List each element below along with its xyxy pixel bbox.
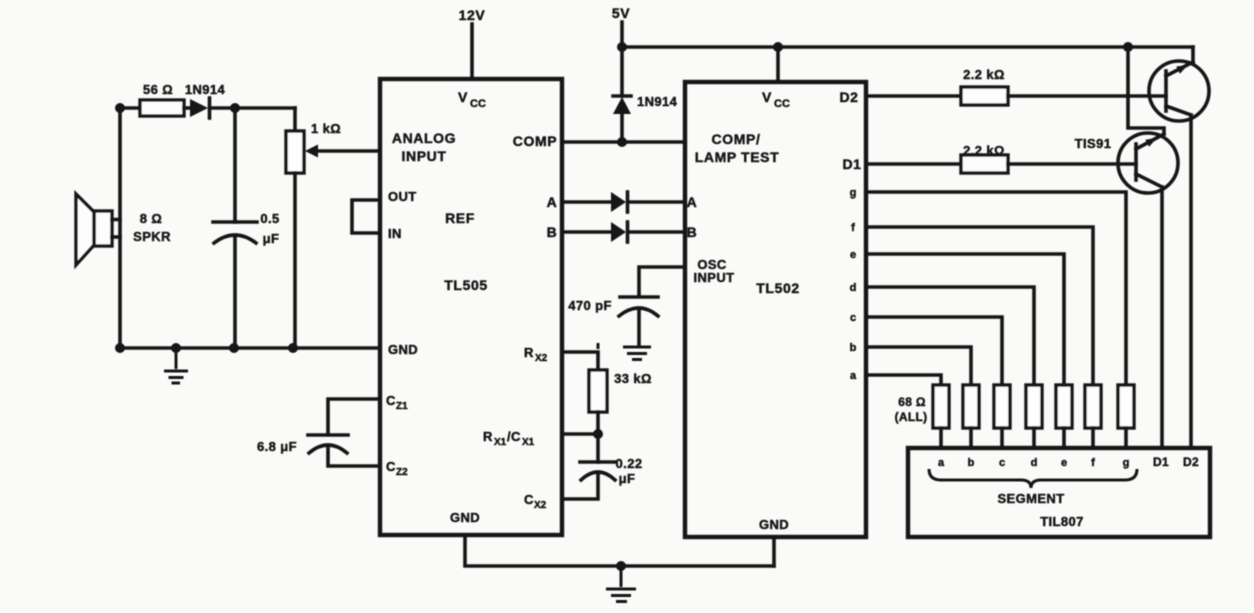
svg-text:b: b <box>850 342 857 354</box>
svg-text:GND: GND <box>759 517 789 532</box>
svg-text:56 Ω: 56 Ω <box>143 82 173 97</box>
svg-text:R: R <box>524 345 534 360</box>
svg-text:X1: X1 <box>494 437 507 448</box>
svg-text:6.8 μF: 6.8 μF <box>257 439 297 454</box>
svg-text:12V: 12V <box>459 7 486 23</box>
svg-text:A: A <box>547 194 558 210</box>
svg-text:μF: μF <box>263 231 280 246</box>
svg-text:TIL807: TIL807 <box>1040 514 1084 529</box>
svg-text:Z1: Z1 <box>396 401 408 412</box>
svg-text:33 kΩ: 33 kΩ <box>614 371 652 386</box>
svg-text:a: a <box>938 457 945 469</box>
svg-text:D2: D2 <box>839 89 858 105</box>
svg-text:X2: X2 <box>535 353 548 364</box>
svg-text:1 kΩ: 1 kΩ <box>311 121 341 136</box>
svg-text:g: g <box>1123 457 1130 469</box>
svg-text:e: e <box>1061 457 1067 469</box>
svg-text:REF: REF <box>445 210 475 226</box>
svg-text:R: R <box>483 429 493 444</box>
svg-text:B: B <box>547 224 558 240</box>
svg-text:X1: X1 <box>522 437 535 448</box>
svg-text:C: C <box>386 459 396 474</box>
svg-text:1N914: 1N914 <box>637 94 678 109</box>
svg-text:COMP: COMP <box>513 133 557 149</box>
svg-text:D1: D1 <box>842 156 861 172</box>
svg-text:c: c <box>850 312 856 324</box>
svg-text:TIS91: TIS91 <box>1075 136 1112 151</box>
svg-text:INPUT: INPUT <box>694 270 735 285</box>
svg-text:b: b <box>968 457 975 469</box>
svg-text:B: B <box>687 224 698 240</box>
svg-text:LAMP TEST: LAMP TEST <box>695 149 779 165</box>
svg-text:f: f <box>851 222 855 234</box>
svg-text:d: d <box>1031 457 1038 469</box>
svg-text:2.2 kΩ: 2.2 kΩ <box>963 67 1005 82</box>
svg-text:d: d <box>850 282 857 294</box>
svg-text:TL502: TL502 <box>756 280 799 296</box>
svg-text:/C: /C <box>507 429 521 444</box>
svg-text:V: V <box>458 89 468 105</box>
svg-text:CC: CC <box>470 98 486 110</box>
svg-text:X2: X2 <box>534 500 547 511</box>
svg-text:IN: IN <box>388 226 402 241</box>
svg-text:SEGMENT: SEGMENT <box>997 491 1064 506</box>
svg-text:C: C <box>524 492 534 507</box>
svg-text:(ALL): (ALL) <box>895 410 928 424</box>
svg-text:COMP/: COMP/ <box>712 131 761 147</box>
svg-text:D1: D1 <box>1153 455 1169 469</box>
svg-text:470 pF: 470 pF <box>568 298 612 313</box>
svg-text:Z2: Z2 <box>396 467 408 478</box>
svg-text:CC: CC <box>774 98 790 110</box>
svg-text:μF: μF <box>619 471 636 486</box>
svg-text:e: e <box>850 249 856 261</box>
svg-text:GND: GND <box>450 510 480 525</box>
svg-text:SPKR: SPKR <box>133 229 171 244</box>
svg-text:INPUT: INPUT <box>402 148 447 164</box>
svg-text:5V: 5V <box>612 5 630 21</box>
svg-text:ANALOG: ANALOG <box>392 130 456 146</box>
svg-text:c: c <box>999 457 1005 469</box>
svg-text:2.2 kΩ: 2.2 kΩ <box>963 143 1005 158</box>
svg-text:1N914: 1N914 <box>185 82 226 97</box>
svg-text:GND: GND <box>388 342 418 357</box>
svg-text:0.5: 0.5 <box>260 211 279 226</box>
svg-text:a: a <box>850 370 857 382</box>
svg-text:C: C <box>386 393 396 408</box>
svg-text:g: g <box>850 187 857 199</box>
svg-text:0.22: 0.22 <box>616 456 643 471</box>
svg-text:8 Ω: 8 Ω <box>140 211 162 226</box>
svg-text:OUT: OUT <box>388 189 417 204</box>
svg-text:A: A <box>687 194 698 210</box>
svg-text:TL505: TL505 <box>444 277 487 293</box>
svg-text:f: f <box>1091 457 1095 469</box>
svg-text:V: V <box>762 89 772 105</box>
svg-text:D2: D2 <box>1183 455 1199 469</box>
svg-text:68 Ω: 68 Ω <box>898 395 926 409</box>
